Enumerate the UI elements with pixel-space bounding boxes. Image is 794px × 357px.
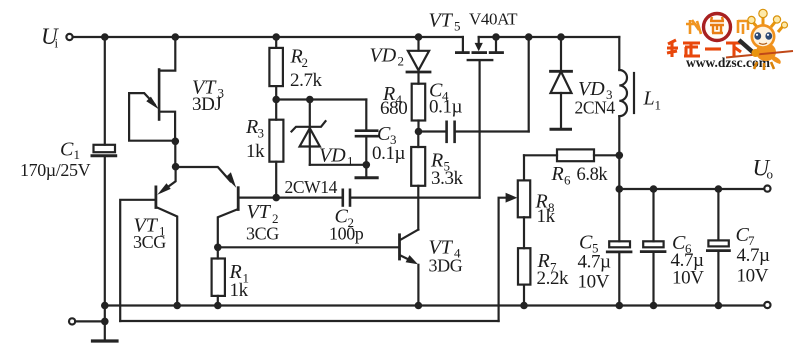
svg-text:10V: 10V: [578, 272, 610, 293]
node dot ground rail left: [101, 302, 109, 310]
transistor VT1 (PNP 3CG): [120, 167, 177, 321]
svg-text:VD: VD: [370, 45, 397, 67]
label R1: [229, 261, 250, 301]
label R3: [245, 116, 265, 162]
svg-text:3CG: 3CG: [246, 224, 279, 244]
node dot R7 bottom: [520, 302, 528, 310]
watermark logo dzsc: [667, 9, 793, 70]
node dot output rail left: [616, 185, 624, 193]
wire VT1 base rail: [120, 320, 498, 322]
label C3: [372, 123, 406, 164]
transistor VT4 (NPN 3DG): [400, 230, 419, 306]
node input ground terminal: [69, 318, 75, 324]
label VT5: [429, 10, 519, 34]
svg-text:VT: VT: [247, 201, 272, 223]
capacitor C2: [276, 190, 479, 206]
transistor VT3 (JFET 3DJ): [129, 37, 175, 141]
label C4: [429, 80, 463, 118]
node dot VD2 top: [415, 33, 423, 41]
wire VT3 source to emitter node: [174, 141, 176, 166]
node dot C4 riser: [525, 33, 533, 41]
wire terminal to ground: [75, 320, 105, 322]
node Uo output terminal: [764, 186, 770, 192]
svg-text:C: C: [579, 232, 593, 254]
svg-text:10V: 10V: [672, 268, 704, 289]
transistor VT5 (VMOS V40AT): [456, 37, 502, 198]
potentiometer wiper arrow to R8: [499, 193, 518, 321]
node dot VT1 collector at ground rail: [173, 302, 181, 310]
svg-text:VT: VT: [429, 10, 454, 32]
wire C4 riser to top rail: [528, 37, 530, 132]
svg-text:1: 1: [655, 98, 662, 113]
svg-text:0.1µ: 0.1µ: [372, 143, 406, 164]
capacitor C1: [92, 145, 116, 156]
svg-text:6: 6: [564, 173, 571, 188]
label VT4: [429, 237, 463, 276]
resistor R7: [518, 248, 530, 305]
node dot C6 top: [650, 185, 658, 193]
wire ground rail: [105, 304, 764, 306]
node dot R2 top: [272, 33, 280, 41]
wire ground stub: [104, 306, 106, 340]
label C7: [736, 224, 771, 287]
capacitor C4: [419, 122, 529, 142]
node ground terminal bottom right: [764, 302, 770, 308]
svg-text:R: R: [551, 163, 564, 185]
svg-text:170µ/25V: 170µ/25V: [20, 160, 91, 180]
svg-text:3.3k: 3.3k: [431, 168, 464, 189]
capacitor C6: [641, 189, 665, 306]
label Ui: [41, 24, 59, 51]
node dot R6 right: [616, 152, 624, 160]
wire top rail left segment: [73, 36, 463, 38]
capacitor C5: [607, 241, 631, 305]
resistor R5: [411, 132, 425, 230]
wire VT2 collector to VT4 base: [218, 246, 398, 248]
svg-text:1k: 1k: [246, 141, 265, 162]
svg-text:V40AT: V40AT: [469, 10, 518, 29]
node dot VD1 C3 junction: [363, 161, 371, 169]
svg-text:3: 3: [258, 126, 265, 141]
resistor R6: [524, 149, 619, 161]
svg-text:C: C: [377, 123, 391, 145]
node dot VT4 emitter: [415, 302, 423, 310]
resistor R4: [412, 84, 426, 132]
svg-text:2.7k: 2.7k: [290, 70, 323, 91]
node dot VD3 top: [557, 33, 565, 41]
label C6: [671, 232, 705, 289]
node dot R4 R5 C4 junction: [415, 128, 423, 136]
svg-text:3CG: 3CG: [133, 232, 166, 252]
svg-text:R: R: [245, 116, 258, 138]
label L1: [643, 88, 662, 113]
inductor L1: [619, 37, 634, 241]
label R5: [430, 150, 464, 190]
node dot C5 bottom: [616, 302, 624, 310]
svg-text:2: 2: [302, 55, 309, 70]
node dot R2 bottom: [272, 96, 280, 104]
svg-text:4.7µ: 4.7µ: [578, 252, 612, 273]
svg-text:5: 5: [454, 19, 461, 34]
svg-text:100p: 100p: [329, 224, 364, 244]
ground symbol main: [93, 339, 118, 342]
label C5: [578, 232, 612, 293]
svg-text:1k: 1k: [537, 206, 556, 227]
wire C1 column lower: [104, 158, 106, 306]
label C1 value: [20, 139, 91, 181]
diode VD3 (2CN4): [551, 37, 572, 129]
label C2: [329, 206, 364, 244]
resistor R2: [269, 37, 283, 120]
svg-text:10V: 10V: [737, 266, 769, 287]
node Ui input terminal: [66, 34, 72, 40]
node dot VT3 drain: [172, 33, 180, 41]
svg-text:2.2k: 2.2k: [537, 268, 570, 289]
label VT2: [246, 201, 279, 244]
svg-text:o: o: [767, 167, 774, 182]
wire R2 node to C3: [276, 98, 366, 100]
wire output rail: [619, 188, 764, 190]
label R4: [380, 83, 407, 119]
label Uo: [753, 156, 774, 182]
svg-text:4.7µ: 4.7µ: [737, 245, 771, 266]
node dot R1 bottom: [214, 302, 222, 310]
node dot C7 bottom: [715, 302, 723, 310]
wire C1 column upper: [104, 37, 106, 145]
wire top rail right segment: [479, 36, 620, 38]
resistor R3: [269, 120, 283, 198]
label VT1: [133, 215, 166, 253]
node dot C7 top: [715, 185, 723, 193]
svg-text:1: 1: [347, 154, 354, 169]
svg-text:6.8k: 6.8k: [577, 165, 609, 185]
svg-text:3DJ: 3DJ: [192, 94, 221, 115]
node dot VT3 source / gate loop: [172, 138, 180, 146]
resistor R8 (potentiometer): [518, 155, 530, 248]
label VD3: [575, 78, 616, 118]
label VT3: [192, 77, 224, 116]
capacitor C7: [707, 189, 729, 306]
resistor R1: [212, 247, 225, 305]
capacitor C3: [356, 100, 377, 165]
label R2: [290, 46, 323, 92]
svg-text:680: 680: [380, 98, 407, 119]
svg-text:C: C: [60, 139, 74, 161]
node dot C1 top: [101, 33, 109, 41]
svg-text:i: i: [55, 36, 59, 51]
svg-text:1k: 1k: [230, 280, 249, 301]
svg-text:0.1µ: 0.1µ: [429, 97, 463, 118]
svg-text:2CN4: 2CN4: [575, 98, 616, 118]
diode VD2: [407, 37, 430, 84]
label VD1: [285, 145, 354, 198]
label VD2: [370, 45, 405, 69]
svg-text:VD: VD: [319, 145, 346, 167]
svg-text:3DG: 3DG: [429, 256, 463, 276]
label R8: [535, 191, 556, 228]
transistor VT2 (PNP 3CG): [176, 167, 276, 247]
svg-text:2CW14: 2CW14: [285, 177, 338, 197]
node dot VD1 top: [306, 96, 314, 104]
node dot VT5 right lead: [492, 33, 500, 41]
ground at VD1/C3: [356, 165, 377, 178]
label R7: [537, 250, 570, 289]
node dot R3 bottom / VT2 base: [272, 194, 280, 202]
label R6: [551, 163, 609, 188]
node dot VT2 collector / R1 top: [214, 244, 222, 252]
zener diode VD1 (2CW14): [292, 100, 367, 165]
node dot common emitter: [172, 163, 180, 171]
node dot ground junction: [101, 318, 109, 326]
node dot C6 bottom: [650, 302, 658, 310]
svg-text:L: L: [643, 88, 655, 110]
svg-text:2: 2: [398, 54, 405, 69]
